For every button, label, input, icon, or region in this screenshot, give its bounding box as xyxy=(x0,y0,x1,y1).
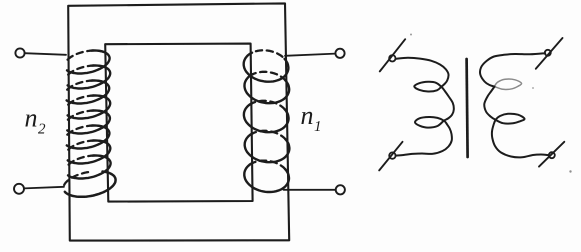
coil n2 turn 2 front arc xyxy=(68,66,111,89)
coil n2 turn 8 front arc xyxy=(68,156,111,179)
symbol secondary coil winding lower part xyxy=(484,87,549,158)
terminal circle bottom-left xyxy=(14,184,24,194)
slash through top-right terminal xyxy=(536,38,563,69)
slash through bottom-right terminal xyxy=(539,142,564,167)
coil n2 turn 7 front arc xyxy=(68,141,111,164)
coil n2 turn 6 front arc xyxy=(67,126,110,149)
wire top-left xyxy=(25,53,66,55)
terminal circle top-right xyxy=(335,49,344,58)
label n2 xyxy=(25,114,36,126)
coil n1 turn 4 back arc (dashed) xyxy=(250,131,286,140)
scan speck 3 xyxy=(532,87,534,89)
symbol terminal circle top-right xyxy=(545,50,551,56)
coil n2 turn 4 back arc (dashed) xyxy=(66,96,105,109)
symbol terminal circle bottom-right xyxy=(549,152,555,158)
coil n1 turn 1 back arc (dashed) xyxy=(256,50,284,58)
symbol secondary coil winding upper part xyxy=(480,53,545,86)
wire bottom-left xyxy=(24,187,64,189)
coil n2 turn 3 back arc (dashed) xyxy=(65,81,104,94)
coil n2 turn 2 back arc (dashed) xyxy=(66,66,105,79)
coil n1 turn 3 back arc (dashed) xyxy=(249,101,285,110)
coil n2 bottom end turn xyxy=(65,172,116,197)
symbol primary coil winding xyxy=(396,58,454,156)
coil n1 turn 4 front arc xyxy=(245,133,290,162)
coil n1 turn 5 front arc xyxy=(244,163,289,192)
coil n2 turn 1 back arc (dashed) xyxy=(65,51,104,64)
coil n1 turn 2 front arc xyxy=(245,74,290,103)
terminal circle bottom-right xyxy=(336,185,345,194)
symbol terminal circle bottom-left xyxy=(389,152,395,158)
coil n1 turn 5 back arc (dashed) xyxy=(250,161,286,170)
transformer core outer outline xyxy=(68,3,289,240)
wire top-right xyxy=(285,54,335,56)
coil n2 turn 6 back arc (dashed) xyxy=(65,126,104,139)
wire bottom-right xyxy=(284,189,336,191)
transformer core window inner outline xyxy=(105,44,252,202)
coil n2 turn 8 back arc (dashed) xyxy=(66,156,105,169)
label n1 xyxy=(301,112,312,124)
symbol core bar xyxy=(467,59,468,157)
scan speck 1 xyxy=(410,34,412,36)
slash through bottom-left terminal xyxy=(379,142,402,171)
coil n1 turn 3 front arc xyxy=(244,103,289,132)
coil n2 turn 3 front arc xyxy=(67,81,110,104)
symbol secondary coil faint crossover loop xyxy=(495,79,522,89)
coil n2 turn 7 back arc (dashed) xyxy=(66,141,105,154)
symbol terminal circle top-left xyxy=(389,55,395,61)
coil n2 turn 4 front arc xyxy=(68,96,111,119)
coil n1 turn 2 back arc (dashed) xyxy=(250,72,286,81)
slash through top-left terminal xyxy=(380,39,405,71)
coil n1 turn 1 front arc xyxy=(244,53,289,82)
terminal circle top-left xyxy=(15,48,24,57)
coil n2 turn 5 back arc (dashed) xyxy=(65,111,104,124)
scan speck 2 xyxy=(569,170,571,172)
coil n2 turn 5 front arc xyxy=(67,111,110,134)
coil n2 turn 1 front arc xyxy=(67,51,110,74)
